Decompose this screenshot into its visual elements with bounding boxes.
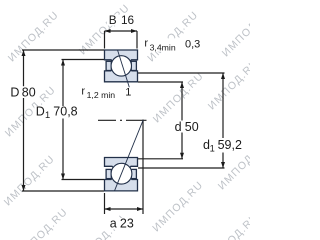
svg-text:d: d <box>175 120 182 134</box>
svg-text:1: 1 <box>45 110 50 120</box>
svg-text:ИМПОД.RU: ИМПОД.RU <box>6 9 62 65</box>
svg-text:80: 80 <box>22 85 36 99</box>
svg-text:ИМПОД.RU: ИМПОД.RU <box>77 2 133 58</box>
svg-text:ИМПОД.RU: ИМПОД.RU <box>2 153 58 209</box>
svg-text:0,3: 0,3 <box>185 38 200 50</box>
svg-text:59,2: 59,2 <box>218 138 242 152</box>
svg-text:ИМПОД.RU: ИМПОД.RU <box>206 211 250 240</box>
svg-text:D: D <box>36 104 45 118</box>
svg-text:r: r <box>81 85 85 97</box>
svg-text:70,8: 70,8 <box>53 104 77 118</box>
svg-text:1: 1 <box>125 87 131 99</box>
svg-text:r: r <box>144 38 148 50</box>
svg-text:ИМПОД.RU: ИМПОД.RU <box>150 179 206 235</box>
svg-text:ИМПОД.RU: ИМПОД.RU <box>151 70 207 126</box>
svg-text:a: a <box>110 216 117 230</box>
svg-text:3,4min: 3,4min <box>150 43 176 53</box>
svg-text:23: 23 <box>120 216 134 230</box>
svg-text:1: 1 <box>210 144 215 154</box>
svg-text:B: B <box>109 13 117 27</box>
svg-text:ИМПОД.RU: ИМПОД.RU <box>220 4 250 60</box>
svg-text:D: D <box>10 85 19 99</box>
svg-text:ИМПОД.RU: ИМПОД.RU <box>15 206 71 240</box>
svg-text:ИМПОД.RU: ИМПОД.RU <box>145 9 201 65</box>
svg-text:50: 50 <box>185 120 199 134</box>
svg-text:ИМПОД.RU: ИМПОД.RU <box>206 57 250 113</box>
svg-text:1,2 min: 1,2 min <box>87 90 116 100</box>
svg-text:16: 16 <box>121 13 135 27</box>
